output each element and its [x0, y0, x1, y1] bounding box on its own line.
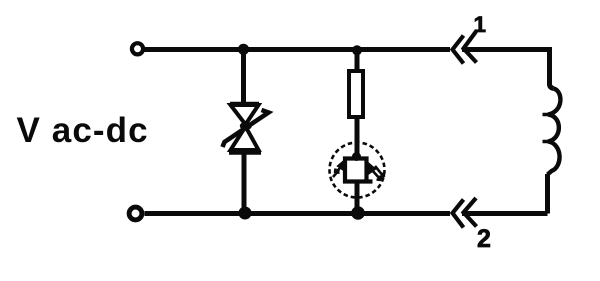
resistor R1: [349, 71, 363, 117]
lamp circle (dashed envelope): [330, 143, 385, 198]
node junction top-B: [352, 45, 362, 55]
lamp top node dot: [352, 152, 361, 161]
LED right emission arrows: [371, 166, 384, 180]
wire resistor branch upper: [355, 50, 360, 72]
connector pin 1 chevron A: [453, 36, 464, 64]
LED left diode: [338, 160, 345, 171]
connector pin 2 chevron A: [453, 200, 464, 228]
svg-text:2: 2: [477, 225, 491, 253]
LED right diode: [368, 163, 375, 174]
wire zener branch upper: [241, 50, 246, 104]
terminal T1 (top-left input): [132, 43, 143, 54]
node junction bottom-B: [351, 206, 365, 220]
svg-text:1: 1: [474, 12, 487, 37]
zener D1 top triangle: [231, 105, 259, 125]
inductor L1 lead-out (bottom vertical): [545, 174, 550, 214]
wire resistor to lamp: [355, 117, 360, 157]
zener D1 diagonal band with bent ends: [223, 110, 269, 147]
LED left emission arrows: [333, 166, 342, 177]
inductor L1 cusp ticks: [543, 115, 550, 142]
zener D1 bottom triangle: [231, 127, 259, 151]
wire top-right horizontal: [462, 47, 550, 52]
zener D1 waist blob: [240, 122, 252, 130]
wire lamp to bottom junction: [355, 182, 360, 211]
wire top-left horizontal: [145, 47, 451, 52]
inductor L1 lead-in (top vertical): [550, 47, 554, 89]
zener bidirectional D1 top bar: [230, 102, 259, 107]
connector pin 2 chevron B: [464, 198, 477, 227]
zener D1 bottom bar: [229, 150, 261, 155]
wire zener branch lower: [242, 153, 247, 210]
connector pin 1 chevron B: [464, 32, 477, 63]
svg-text:V ac-dc: V ac-dc: [17, 111, 149, 150]
inductor L1 winding bumps: [548, 89, 561, 175]
lamp inner rectangle: [345, 159, 373, 182]
terminal T2 (bottom-left input): [129, 207, 142, 220]
node junction bottom-A: [239, 207, 252, 220]
wire bottom-right horizontal: [462, 211, 548, 216]
wire bottom-left horizontal: [145, 211, 451, 216]
node junction top-A: [238, 44, 249, 55]
